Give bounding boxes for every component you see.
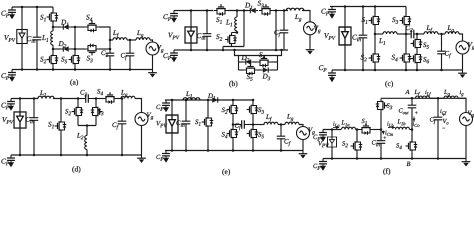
wire S1 drain (c): [374, 7, 376, 14]
label CP: [319, 65, 327, 72]
wire S2 lower link (b): [223, 46, 244, 48]
junction: [121, 154, 124, 157]
label S3: [258, 108, 264, 114]
caption (f): [383, 168, 390, 175]
wire Vg bottom (e): [302, 139, 304, 150]
ground (c): [458, 70, 467, 78]
parasitic capacitor CP top with ground (e): [162, 100, 170, 112]
transistor S3 (f): [376, 99, 388, 113]
caption (e): [222, 169, 230, 176]
wire Cf bottom lead (a): [129, 61, 131, 70]
label VPV: [2, 117, 13, 124]
label L1: [379, 38, 385, 44]
label S5: [258, 132, 264, 138]
label CP: [313, 164, 320, 170]
wire S3 to Lg (b): [273, 10, 288, 12]
label Vg: [157, 45, 164, 53]
label S3: [392, 17, 398, 24]
wire Vg bottom (a): [152, 55, 154, 70]
wire S1 source (c): [374, 28, 376, 35]
ground (e): [299, 151, 308, 159]
wire top rail left (d): [11, 98, 38, 100]
junction: [36, 68, 39, 71]
wire to D1 (a): [53, 26, 61, 28]
wire VPV top lead (e): [171, 100, 173, 115]
junction: [374, 69, 377, 72]
wire S4 drain (f): [411, 130, 413, 141]
wire S1 drain (e): [207, 100, 209, 115]
wire bottom rail (d): [11, 154, 142, 156]
junction: [207, 149, 210, 152]
wire S4 to C1 top (a): [99, 27, 110, 40]
label S2: [65, 109, 71, 115]
label S6: [423, 57, 429, 63]
wire S4 drain (e): [232, 125, 234, 127]
node B (f): [407, 162, 411, 166]
label Lg: [444, 90, 450, 97]
wire bottom rail (a): [12, 69, 153, 71]
junction: [280, 49, 283, 52]
label L1: [186, 92, 192, 98]
transistor S4 (c): [400, 51, 412, 65]
junction: [344, 5, 347, 8]
label Lf: [426, 26, 432, 33]
wire Cin top lead (a): [36, 7, 38, 33]
caption (c): [385, 81, 393, 88]
wire L1 to network (d): [53, 98, 78, 100]
wire L1 to right leg (c): [397, 33, 406, 35]
wire Cf bottom lead (b): [283, 38, 285, 51]
inductor L1a (f): [342, 127, 356, 129]
wire VPV top lead (d): [19, 99, 21, 113]
subfigure (b) buck-boost inverter: [163, 1, 320, 88]
capacitor Cin (b): [203, 29, 212, 41]
wire mid to Cf (e): [233, 124, 238, 126]
wire bottom rail (c): [332, 69, 463, 71]
label Lg: [295, 15, 301, 22]
wire S2 source (a): [52, 67, 54, 70]
junction: [60, 97, 63, 100]
ground (f): [462, 159, 471, 167]
wire mid out (e): [253, 124, 265, 126]
junction: [206, 49, 209, 52]
junction: [52, 68, 55, 71]
label S4: [222, 132, 228, 138]
junction: [185, 149, 188, 152]
label C2: [80, 90, 87, 96]
label Cf: [284, 139, 290, 146]
wire S5 to D3 (b): [258, 69, 261, 71]
wire VPV top lead (b): [190, 11, 192, 28]
wire S3 to C1 (a): [99, 48, 110, 50]
wire S2 drain (a): [52, 49, 54, 53]
wire bottom rail (f): [323, 158, 466, 160]
parasitic capacitor CP top with ground (d): [7, 99, 15, 111]
label Cf: [121, 53, 127, 60]
label Cin: [176, 121, 184, 127]
wire D3 right (b): [271, 69, 278, 71]
label Cf: [430, 117, 436, 124]
parasitic capacitor CP top with ground (f): [319, 130, 327, 142]
wire L2 top (d): [86, 126, 88, 136]
wire top rail (e): [165, 99, 253, 101]
junction: [171, 149, 174, 152]
label C2: [406, 26, 413, 32]
junction: [190, 9, 193, 12]
parasitic capacitor CP bottom with ground (e): [162, 151, 170, 163]
label CP: [1, 159, 9, 166]
transistor S3 (e): [247, 103, 259, 117]
wire Lg to Vg (b): [302, 11, 310, 23]
wire S3 source (d): [95, 119, 97, 126]
capacitor Cf output (e): [277, 132, 286, 144]
inductor Lg (e): [285, 122, 299, 124]
label CP: [313, 135, 320, 141]
inductor L1 (a): [51, 31, 53, 45]
wire S1 to D1 (b): [228, 10, 248, 12]
label S4: [259, 52, 265, 59]
label Cf: [235, 123, 241, 130]
junction: [331, 128, 334, 131]
wire Lg to Vg (c): [459, 34, 463, 41]
capacitor Cf (d): [118, 117, 127, 129]
label CP: [321, 9, 329, 16]
wire S2 drain (f): [356, 130, 358, 141]
label Cin: [372, 140, 380, 146]
wire Cout top lead (f): [411, 98, 413, 100]
current label iLf (f): [425, 90, 431, 97]
wire L1a to S1 (f): [356, 129, 360, 131]
junction: [232, 149, 235, 152]
label D1: [245, 3, 252, 9]
capacitor Cin (e): [182, 117, 191, 129]
junction: [86, 154, 89, 157]
junction: [21, 6, 24, 9]
wire Lg to Vg (e): [299, 125, 303, 127]
current label iCout (f): [413, 121, 420, 127]
junction: [33, 97, 36, 100]
junction: [60, 154, 63, 157]
junction: [19, 97, 22, 100]
wire L1 bottom (a): [52, 45, 54, 49]
junction: [109, 48, 112, 51]
label S3: [98, 109, 104, 115]
wire Lf to Lg (f): [430, 97, 445, 99]
junction: [252, 123, 255, 126]
wire L1b to column (f): [410, 129, 413, 131]
label Lf: [113, 31, 119, 38]
wire S5 drain (a): [74, 49, 76, 53]
wire S2 source (c): [374, 65, 376, 70]
wire Vg bottom (c): [462, 54, 464, 70]
junction: [356, 157, 359, 160]
label S4: [396, 143, 402, 149]
label Vg: [147, 113, 153, 120]
junction: [275, 49, 278, 52]
wire Cin bottom lead (b): [206, 41, 208, 50]
capacitor Cf (f): [434, 113, 443, 125]
current arrow iCout (f): [413, 117, 415, 122]
diode D1 (e): [210, 97, 220, 102]
inductor L1 (d): [38, 96, 54, 98]
inductor Lf (c): [424, 32, 438, 34]
junction: [74, 26, 77, 29]
label S4: [392, 55, 398, 62]
label CP: [1, 11, 9, 18]
label CP: [156, 105, 163, 111]
wire S3 source (f): [380, 113, 382, 130]
label L1b: [397, 119, 405, 125]
capacitor Cout (f): [408, 101, 417, 113]
label Lf: [266, 115, 272, 122]
inductor Lf (a): [113, 38, 127, 40]
grid source Vg (c): [456, 41, 469, 54]
wire CB bottom lead (f): [380, 147, 382, 158]
transistor S5 (e): [247, 127, 259, 141]
wire Cf bottom lead (c): [441, 59, 443, 71]
label Lg: [121, 90, 127, 97]
label VPV: [324, 33, 335, 40]
wire Cin bottom lead (c): [362, 43, 364, 71]
transistor S4 (e): [227, 127, 239, 141]
label Lg: [137, 31, 143, 38]
Vo minus mark (f): [442, 127, 445, 129]
label CP: [1, 103, 9, 110]
transistor S2 (b): [225, 33, 237, 47]
wire Cin bottom lead (d): [33, 125, 35, 155]
parasitic capacitor CP bottom with ground (f): [319, 159, 327, 171]
node A (f): [405, 90, 409, 94]
junction: [416, 33, 419, 36]
wire VPV bottom lead (b): [190, 43, 192, 50]
wire Lf to Lg (e): [278, 124, 285, 126]
label D2: [241, 55, 249, 61]
PV source VPV (b): [185, 27, 197, 43]
wire S5-S6 (c): [416, 51, 418, 52]
label CP: [163, 14, 171, 21]
inductor Lg (a): [136, 38, 150, 40]
wire mid bus (b): [243, 11, 245, 47]
label CP: [1, 73, 9, 80]
inductor L1 (c): [383, 32, 397, 34]
wire S1 source (a): [52, 24, 54, 27]
wire S4 source (e): [232, 141, 234, 151]
parasitic capacitor CP bottom with ground (d): [7, 155, 15, 167]
subfigure (a) flying-inductor inverter: [1, 6, 163, 86]
junction: [275, 9, 278, 12]
wire C1 to Lf (a): [110, 39, 113, 41]
wire bottom rail (b): [174, 49, 288, 51]
inductor Lg (c): [445, 32, 459, 34]
wire L1 to S2 (b): [232, 32, 238, 34]
PV source VPV (d): [14, 112, 26, 128]
node S1-L1 (a): [52, 26, 55, 29]
junction: [185, 99, 188, 102]
wire to L1 (c): [375, 33, 383, 35]
wire to D2 (a): [53, 48, 61, 50]
transistor S1 (e): [202, 115, 214, 129]
wire to D2 (b): [239, 61, 244, 63]
label L1: [226, 20, 232, 26]
label Vg: [314, 26, 321, 34]
parasitic capacitor CP top with ground (a): [8, 7, 16, 19]
transistor S1 (c): [369, 14, 381, 28]
transistor S2 (c): [369, 51, 381, 65]
label S2: [361, 55, 367, 62]
PV source VPV (f): [327, 137, 336, 147]
wire S1 drain (d): [60, 99, 62, 120]
wire C1 bottom lead (a): [109, 61, 111, 70]
junction: [440, 69, 443, 72]
current label iCin (f): [385, 131, 393, 136]
junction: [411, 128, 414, 131]
wire VPV bottom lead (e): [171, 133, 173, 151]
wire D2 to S4 (b): [254, 61, 258, 63]
junction: [233, 49, 236, 52]
transistor S4 (a): [85, 21, 99, 33]
label L1a: [341, 120, 349, 126]
wire S1 source (d): [60, 133, 62, 155]
wire to S4 (c): [405, 34, 407, 51]
capacitor Cf mid (e): [237, 120, 249, 129]
inductor Lf (f): [416, 96, 430, 98]
diode D2 (b): [244, 59, 254, 64]
subfigure (d) buck-boost CSI inverter: [1, 89, 153, 173]
label Lg: [447, 26, 453, 33]
junction: [374, 5, 377, 8]
label S5: [423, 43, 429, 49]
node L1-S2 (b): [236, 31, 239, 34]
wire S2 source (e): [232, 117, 234, 125]
junction: [109, 68, 112, 71]
wire D2 to S3 (a): [71, 48, 85, 50]
inductor L2 (d): [85, 136, 87, 150]
wire D1 to S4 (a): [71, 26, 85, 28]
capacitor C2 (c): [407, 30, 419, 39]
wire Cout bottom lead (f): [411, 112, 413, 129]
diode D2 (a): [61, 46, 71, 51]
label C1: [101, 51, 107, 57]
transistor S1 (a): [47, 10, 59, 24]
wire S5 source (a): [74, 67, 76, 70]
parasitic capacitor CP bottom with ground (b): [170, 50, 178, 62]
wire S2 source (d): [77, 119, 79, 126]
junction: [36, 6, 39, 9]
wire S3 source (c): [405, 28, 407, 35]
junction: [380, 128, 383, 131]
plus mark Cout (f): [415, 111, 418, 114]
wire Lg to Vg (a): [150, 40, 153, 42]
label S1: [362, 119, 367, 125]
label S1: [216, 17, 222, 24]
wire Cf top lead (d): [121, 99, 123, 117]
wire Lg to Vg (d): [135, 99, 142, 113]
transistor S4 (d): [103, 92, 117, 104]
wire to C2 (d): [78, 98, 82, 100]
current arrow iL1b (f): [388, 127, 395, 129]
inductor Lg (d): [121, 96, 135, 98]
label S2: [40, 57, 46, 64]
inductor Lf (e): [264, 122, 278, 124]
transistor S2 (e): [227, 103, 239, 117]
transistor S2 (f): [351, 139, 363, 153]
caption (a): [70, 79, 78, 86]
wire top rail (f): [381, 97, 466, 99]
wire S3 drain (e): [252, 100, 254, 103]
parasitic capacitor CP top with ground (c): [328, 7, 336, 19]
junction: [437, 157, 440, 160]
wire Cf top lead (f): [437, 98, 439, 112]
wire top rail left (b): [174, 10, 214, 12]
label VPV: [168, 33, 179, 40]
junction: [356, 128, 359, 131]
inductor Lg (b): [286, 8, 304, 10]
label Vg: [308, 128, 314, 135]
label Cin: [352, 35, 360, 42]
wire S2 drain (e): [232, 100, 234, 103]
Vo label (f): [443, 119, 449, 125]
wire bottom rail (e): [165, 150, 303, 152]
transistor S4 (f): [406, 139, 418, 153]
label D1: [208, 94, 215, 100]
transistor S1 (d): [55, 119, 67, 133]
wire S1 drain (a): [52, 7, 54, 10]
wire S5 drain (e): [252, 125, 254, 127]
PV source VPV (a): [17, 30, 27, 44]
wire Lf to Cf (c): [438, 33, 445, 35]
subfigure (e) buck-boost half-bridge inverter: [156, 92, 314, 176]
junction: [252, 99, 255, 102]
parasitic capacitor CP bottom with ground (c): [328, 70, 336, 82]
wire S4 to Lg (d): [117, 98, 121, 100]
wire Lg to Vg (f): [458, 98, 466, 113]
capacitor Cf (a): [126, 49, 135, 61]
current label ig (f): [460, 90, 464, 97]
wire C1 top lead (a): [109, 40, 111, 48]
junction: [171, 99, 174, 102]
junction: [440, 33, 443, 36]
label S5: [247, 74, 253, 81]
wire to S5 (b): [239, 69, 244, 71]
parasitic capacitor CP bottom with ground (a): [8, 70, 16, 82]
wire VPV bottom lead (c): [344, 45, 346, 70]
wire VPV top lead (a): [21, 7, 23, 30]
label S3: [387, 103, 393, 109]
junction: [86, 124, 89, 127]
junction: [283, 9, 286, 12]
capacitor Cf (b): [280, 26, 289, 38]
label Cin: [197, 33, 205, 40]
transistor S5 (b): [244, 64, 258, 76]
wire Cf bottom lead (f): [437, 125, 439, 159]
wire Cin bottom lead (e): [185, 129, 187, 151]
inductor L1b (f): [396, 127, 410, 129]
capacitor CB (f): [377, 136, 386, 148]
junction: [280, 123, 283, 126]
label D3: [262, 74, 270, 81]
wire Cf top lead (a): [129, 40, 131, 48]
ground (a): [148, 70, 157, 78]
junction: [362, 5, 365, 8]
parasitic capacitor CP top with ground (b): [170, 11, 178, 23]
wire Cin top lead (d): [33, 99, 35, 114]
current arrow iCin (f): [382, 131, 384, 135]
capacitor Cin (a): [33, 33, 42, 45]
label Cf: [274, 30, 280, 37]
transistor S1 (b): [214, 4, 228, 16]
wire S4 source (c): [405, 65, 407, 70]
subfigure (c) full-bridge inverter: [319, 5, 474, 87]
